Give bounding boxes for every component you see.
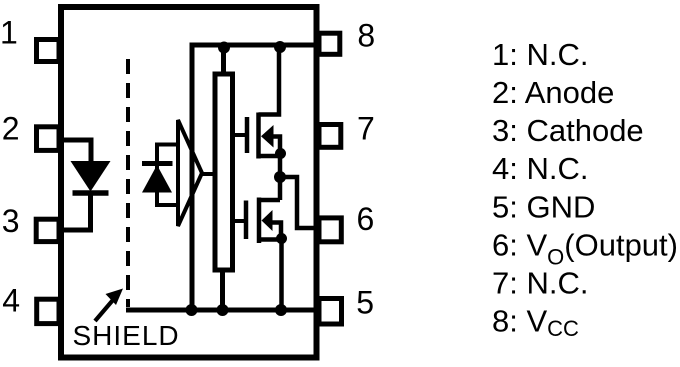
svg-text:4: 4 xyxy=(2,283,20,319)
lower MOSFET Q2 channel bar xyxy=(257,198,262,244)
svg-text:7: N.C.: 7: N.C. xyxy=(492,266,588,301)
wire: amp output to resistor block xyxy=(200,172,215,176)
photodiode cathode bar xyxy=(142,161,173,166)
junction dot on Vcc rail above resistor xyxy=(218,42,230,54)
IC package body xyxy=(61,7,317,358)
upper MOSFET Q1 body lead xyxy=(273,137,280,178)
junction dot GND rail below resistor xyxy=(217,304,229,316)
lower MOSFET Q2 source lead xyxy=(259,237,281,242)
upper MOSFET Q1 source lead xyxy=(259,154,281,159)
shield pointer arrow line xyxy=(95,301,113,322)
upper MOSFET Q1 body arrow xyxy=(261,125,274,148)
junction dot lower MOSFET source xyxy=(276,233,287,244)
junction dot GND rail left xyxy=(186,304,198,316)
lower MOSFET Q2 body lead xyxy=(272,223,281,239)
pin 5 lead box xyxy=(319,299,342,325)
wire: output node down to lower MOSFET drain xyxy=(278,177,283,200)
svg-text:2: Anode: 2: Anode xyxy=(492,75,614,110)
lower MOSFET Q2 gate bar xyxy=(244,201,249,240)
resistor block stub bottom xyxy=(220,270,225,310)
pin 3 lead box xyxy=(36,219,59,241)
lower MOSFET Q2 gate lead xyxy=(234,219,246,223)
svg-text:3: Cathode: 3: Cathode xyxy=(492,113,644,148)
upper MOSFET Q1 channel bar xyxy=(256,113,261,159)
svg-text:8: 8 xyxy=(357,18,375,54)
shield dashed line xyxy=(126,59,130,307)
Vcc rail wire and left vertical wire xyxy=(192,45,316,310)
junction dot output node xyxy=(274,171,286,183)
wire: pin 2 (anode) to LED xyxy=(61,140,91,163)
wire: output node to pin 6 xyxy=(280,177,316,228)
svg-text:7: 7 xyxy=(357,111,375,147)
pin 7 lead box xyxy=(319,125,341,148)
pin 1 lead box xyxy=(37,40,60,62)
svg-text:5: GND: 5: GND xyxy=(492,189,595,224)
pin 4 lead box xyxy=(37,299,59,323)
wire: lower MOSFET source to GND rail xyxy=(279,239,284,311)
upper MOSFET Q1 drain lead to Vcc rail xyxy=(259,45,280,115)
svg-text:6: 6 xyxy=(357,201,375,237)
lower MOSFET Q2 drain lead xyxy=(259,198,280,203)
junction dot upper MOSFET source xyxy=(275,148,286,159)
junction dot GND rail below MOSFET xyxy=(275,304,287,316)
LED D1 cathode bar xyxy=(73,190,109,196)
svg-text:2: 2 xyxy=(2,110,20,146)
svg-text:SHIELD: SHIELD xyxy=(73,320,180,351)
upper MOSFET Q1 gate bar xyxy=(245,117,250,153)
photodiode bracket wires xyxy=(157,145,178,206)
svg-text:3: 3 xyxy=(2,203,20,239)
svg-text:4: N.C.: 4: N.C. xyxy=(492,151,588,186)
wire: LED cathode to pin 3 xyxy=(61,191,91,230)
resistor block stub top xyxy=(221,47,226,74)
GND rail wire xyxy=(126,308,316,313)
LED D1 anode triangle xyxy=(71,161,111,192)
junction dot on Vcc rail above MOSFET drain xyxy=(274,41,286,53)
svg-text:5: 5 xyxy=(356,284,374,320)
svg-text:1: 1 xyxy=(0,14,18,50)
shield pointer arrowhead xyxy=(106,289,124,306)
pin 2 lead box xyxy=(37,127,60,151)
amplifier triangle U1 xyxy=(178,120,202,226)
photodiode triangle xyxy=(142,165,172,193)
pin 6 lead box xyxy=(319,218,341,242)
lower MOSFET Q2 body arrow xyxy=(262,210,273,231)
upper MOSFET Q1 gate lead xyxy=(234,133,247,137)
svg-text:1: N.C.: 1: N.C. xyxy=(492,37,588,72)
resistor block R1 xyxy=(215,74,233,270)
pin 8 lead box xyxy=(319,33,340,54)
